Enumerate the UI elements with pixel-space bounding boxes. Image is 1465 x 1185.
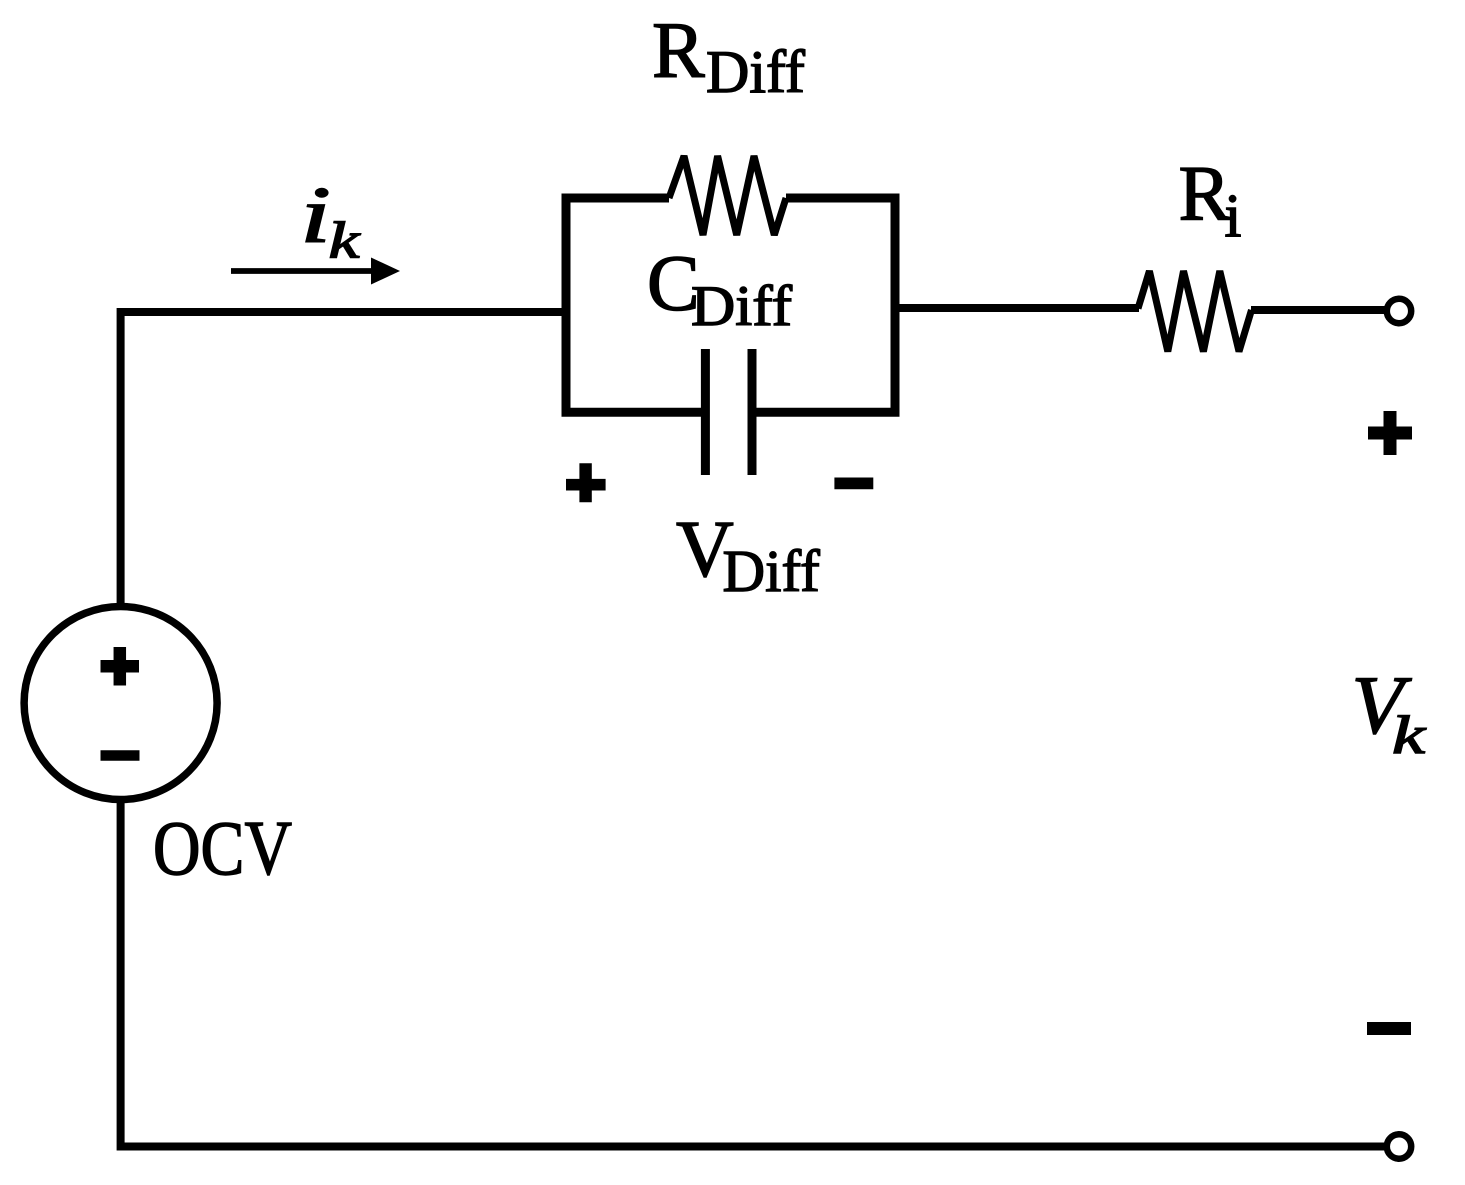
svg-text:k: k — [1392, 705, 1426, 765]
RC box bottom edge right — [748, 408, 900, 417]
wire: bottom loop from source bottom to lower-right terminal — [121, 802, 1385, 1147]
wire: top-left segment from RC box to left corner and down to source — [121, 312, 566, 604]
minus sign under capacitor — [834, 478, 873, 490]
resistor R_Diff — [669, 156, 786, 235]
svg-text:k: k — [329, 213, 361, 270]
voltage source OCV — [24, 607, 217, 800]
RC box top edge left — [562, 194, 670, 203]
label i_k — [300, 172, 361, 270]
label R_i — [1179, 150, 1242, 251]
capacitor C_Diff right plate — [748, 349, 757, 475]
minus sign at output — [1367, 1022, 1411, 1035]
resistor R_i — [1138, 271, 1252, 352]
capacitor C_Diff left plate — [701, 349, 710, 475]
wire: RC box right to R_i — [895, 304, 1139, 312]
svg-text:Diff: Diff — [723, 538, 821, 604]
plus sign at output — [1368, 411, 1412, 455]
wire: R_i to top-right terminal — [1251, 306, 1387, 314]
plus sign inside source — [101, 647, 140, 686]
RC box left edge — [562, 194, 571, 417]
svg-text:R: R — [1179, 150, 1231, 237]
RC box right edge — [891, 194, 900, 417]
svg-text:Diff: Diff — [691, 275, 792, 338]
bottom-right terminal node — [1387, 1134, 1411, 1158]
RC box top edge right — [786, 194, 900, 203]
label C_Diff — [647, 241, 792, 339]
svg-text:Diff: Diff — [706, 39, 805, 105]
svg-text:R: R — [652, 8, 705, 95]
plus sign under capacitor — [566, 463, 606, 502]
svg-text:i: i — [1225, 183, 1242, 250]
label R_Diff — [652, 8, 805, 105]
svg-text:i: i — [300, 172, 331, 260]
svg-text:OCV: OCV — [153, 805, 292, 891]
label V_Diff — [676, 506, 820, 604]
top-right terminal node — [1387, 299, 1411, 323]
label V_k — [1352, 659, 1427, 765]
RC box bottom edge left — [562, 408, 710, 417]
current arrow i_k — [231, 258, 400, 285]
minus sign inside source — [101, 750, 140, 761]
